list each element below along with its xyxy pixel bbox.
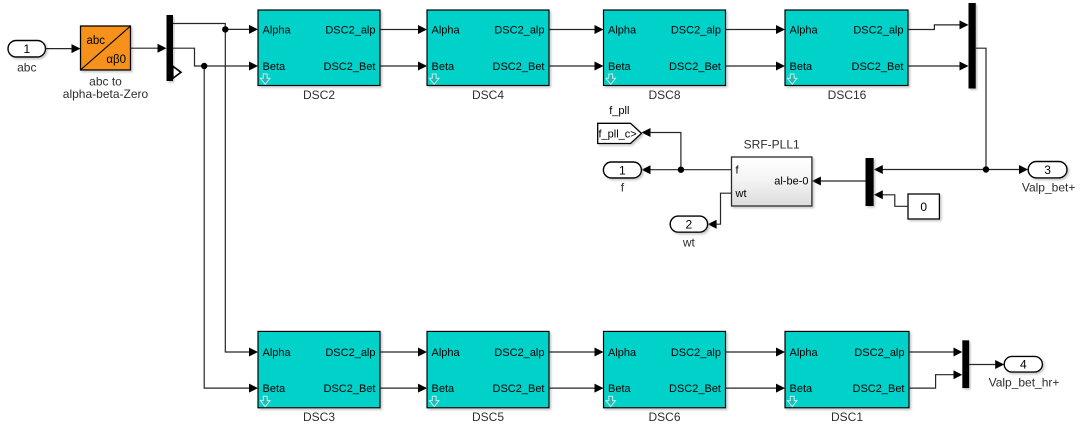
- svg-text:wt: wt: [735, 188, 747, 200]
- svg-text:SRF-PLL1: SRF-PLL1: [744, 138, 800, 152]
- subsystem SRF-PLL1: [732, 138, 812, 207]
- svg-text:DSC2_alp: DSC2_alp: [671, 24, 721, 36]
- svg-text:1: 1: [23, 42, 30, 56]
- wire DSC6 to DSC1 bet: [726, 384, 786, 393]
- svg-text:Beta: Beta: [432, 61, 456, 73]
- subsystem DSC8: [604, 10, 726, 102]
- wire DSC3 to DSC5 alp: [380, 348, 427, 357]
- svg-text:DSC2: DSC2: [303, 88, 335, 102]
- svg-text:Beta: Beta: [432, 383, 456, 395]
- subsystem DSC6: [604, 331, 726, 424]
- svg-text:DSC5: DSC5: [472, 410, 504, 424]
- svg-text:0: 0: [920, 200, 927, 214]
- wire DSC6 to DSC1 alp: [726, 348, 786, 357]
- svg-text:Beta: Beta: [608, 61, 632, 73]
- wire DSC4 to DSC8 bet: [549, 62, 604, 71]
- svg-text:DSC4: DSC4: [472, 88, 504, 102]
- svg-text:DSC2_alp: DSC2_alp: [671, 347, 721, 359]
- svg-text:DSC1: DSC1: [831, 410, 863, 424]
- svg-text:DSC16: DSC16: [828, 88, 867, 102]
- svg-text:Alpha: Alpha: [790, 347, 819, 359]
- svg-text:wt: wt: [682, 235, 696, 249]
- mux1: [969, 3, 976, 89]
- svg-text:DSC2_alp: DSC2_alp: [494, 24, 544, 36]
- wire SRF wt to outport2: [708, 193, 732, 229]
- subsystem DSC3: [258, 331, 380, 424]
- svg-text:2: 2: [686, 218, 693, 232]
- inport 1 abc: [8, 41, 46, 75]
- mux3: [962, 340, 969, 388]
- subsystem DSC16: [785, 10, 908, 102]
- svg-text:DSC2_Bet: DSC2_Bet: [324, 61, 376, 73]
- outport 2 wt: [670, 216, 707, 249]
- svg-text:DSC2_alp: DSC2_alp: [325, 24, 375, 36]
- svg-text:DSC3: DSC3: [303, 410, 335, 424]
- svg-text:DSC2_alp: DSC2_alp: [494, 347, 544, 359]
- svg-text:Beta: Beta: [790, 383, 814, 395]
- svg-text:DSC6: DSC6: [648, 410, 680, 424]
- subsystem DSC2: [258, 10, 380, 102]
- svg-text:Alpha: Alpha: [790, 24, 819, 36]
- svg-text:Beta: Beta: [263, 61, 287, 73]
- svg-text:DSC8: DSC8: [648, 88, 680, 102]
- svg-text:Alpha: Alpha: [263, 347, 292, 359]
- subsystem DSC5: [427, 331, 549, 424]
- svg-text:Beta: Beta: [263, 383, 287, 395]
- outport 1 f: [603, 162, 641, 194]
- svg-text:DSC2_alp: DSC2_alp: [325, 347, 375, 359]
- svg-text:al-be-0: al-be-0: [774, 175, 808, 187]
- svg-text:Valp_bet+: Valp_bet+: [1022, 181, 1076, 195]
- goto f_pll: [598, 105, 642, 143]
- svg-text:abc: abc: [87, 35, 106, 47]
- svg-text:alpha-beta-Zero: alpha-beta-Zero: [63, 87, 149, 101]
- subsystem DSC4: [427, 10, 549, 102]
- svg-text:Alpha: Alpha: [263, 24, 292, 36]
- svg-text:f_pll_c>​: f_pll_c>​: [599, 129, 637, 141]
- wire DSC1 alp to mux3: [909, 348, 962, 357]
- mux2: [866, 158, 874, 206]
- wire DSC2 to DSC4 alp: [380, 25, 427, 34]
- svg-text:DSC2_Bet: DSC2_Bet: [852, 61, 904, 73]
- wire mux1 to outport3 and mux2: [874, 48, 1028, 174]
- wire mux3 to outport4: [969, 360, 1004, 369]
- wire DSC8 to DSC16 alp: [726, 25, 786, 34]
- svg-text:Alpha: Alpha: [608, 347, 637, 359]
- svg-text:3: 3: [1044, 163, 1051, 177]
- svg-text:Valp_bet_hr+: Valp_bet_hr+: [989, 375, 1060, 389]
- wire demux out2 to DSC2.Beta and DSC3.Beta: [173, 48, 258, 392]
- wire DSC8 to DSC16 bet: [726, 62, 786, 71]
- svg-text:f: f: [621, 180, 625, 194]
- svg-text:DSC2_Bet: DSC2_Bet: [669, 383, 721, 395]
- wire constant to mux2: [874, 190, 908, 206]
- subsystem DSC1: [785, 331, 909, 424]
- outport 3 Valp_bet+: [1022, 162, 1076, 195]
- svg-text:DSC2_Bet: DSC2_Bet: [493, 383, 545, 395]
- wire DSC5 to DSC6 alp: [549, 348, 604, 357]
- wire DSC1 bet to mux3: [909, 370, 962, 388]
- svg-text:DSC2_Bet: DSC2_Bet: [853, 383, 905, 395]
- wire DSC16 bet to mux1: [908, 62, 969, 71]
- svg-text:1: 1: [619, 163, 626, 177]
- svg-text:Beta: Beta: [608, 383, 632, 395]
- wire DSC4 to DSC8 alp: [549, 25, 604, 34]
- wire abc to transform: [46, 44, 81, 53]
- svg-text:Alpha: Alpha: [432, 347, 461, 359]
- wire SRF f to outport1 and goto: [642, 128, 732, 174]
- wire transform to demux: [131, 44, 167, 53]
- svg-text:4: 4: [1020, 358, 1027, 372]
- svg-text:f_pll: f_pll: [609, 105, 629, 117]
- block abc to alpha-beta-Zero: [63, 26, 149, 101]
- svg-text:DSC2_Bet: DSC2_Bet: [493, 61, 545, 73]
- svg-text:αβ0: αβ0: [106, 54, 126, 66]
- wire DSC2 to DSC4 bet: [380, 62, 427, 71]
- svg-text:abc: abc: [17, 60, 36, 74]
- svg-text:DSC2_Bet: DSC2_Bet: [669, 61, 721, 73]
- constant 0: [908, 194, 939, 219]
- svg-text:Alpha: Alpha: [608, 24, 637, 36]
- wire DSC5 to DSC6 bet: [549, 384, 604, 393]
- wire DSC3 to DSC5 bet: [380, 384, 427, 393]
- svg-text:DSC2_Bet: DSC2_Bet: [324, 383, 376, 395]
- wire demux out1 to DSC2.Alpha and DSC3.Alpha: [173, 24, 258, 357]
- wire mux2 to SRF-PLL1: [812, 177, 866, 186]
- svg-text:Beta: Beta: [790, 61, 814, 73]
- outport 4 Valp_bet_hr+: [989, 356, 1060, 389]
- svg-text:DSC2_alp: DSC2_alp: [854, 347, 904, 359]
- demux: [167, 15, 182, 81]
- svg-text:Alpha: Alpha: [432, 24, 461, 36]
- svg-text:DSC2_alp: DSC2_alp: [853, 24, 903, 36]
- wire DSC16 alp to mux1: [908, 20, 969, 29]
